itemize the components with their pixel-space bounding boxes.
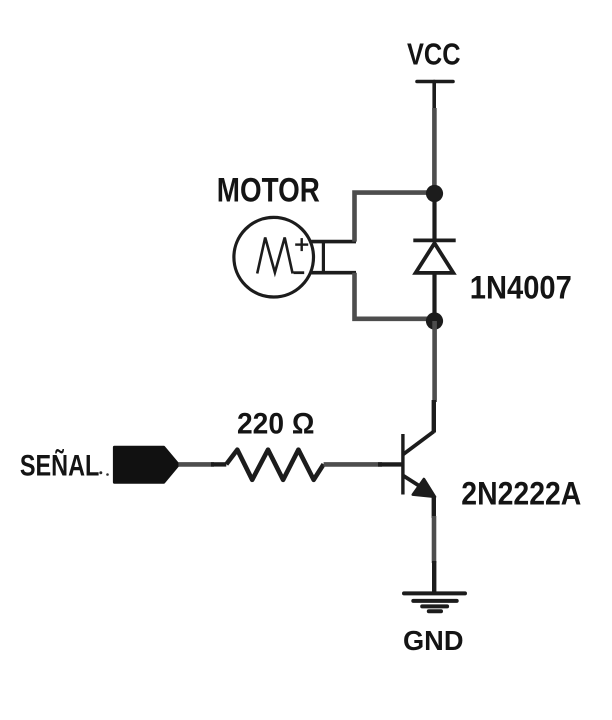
small speck bbox=[99, 471, 102, 474]
transistor Q1 emitter arrow bbox=[413, 479, 435, 497]
emitter lead bbox=[432, 496, 436, 518]
svg-text:SEÑAL: SEÑAL bbox=[20, 449, 100, 483]
svg-text:MOTOR: MOTOR bbox=[217, 172, 320, 210]
wire resistor to base bbox=[324, 462, 382, 467]
collector lead bbox=[432, 400, 436, 433]
svg-text:2N2222A: 2N2222A bbox=[461, 475, 581, 511]
signal input tag bbox=[114, 447, 178, 482]
wire node B to collector bbox=[432, 321, 437, 402]
svg-text:220 Ω: 220 Ω bbox=[237, 407, 315, 440]
ground symbol bbox=[404, 593, 465, 611]
motor M1 bbox=[234, 217, 314, 297]
ground lead bbox=[432, 561, 436, 592]
period speck after SEÑAL bbox=[106, 473, 109, 476]
transistor Q1 bbox=[403, 432, 434, 495]
motor terminal bar bbox=[322, 240, 325, 274]
motor lead top bbox=[311, 240, 356, 244]
diode D1 lead bottom bbox=[432, 273, 436, 315]
power symbol VCC bbox=[417, 82, 453, 111]
diode D1 lead top bbox=[432, 194, 436, 240]
wire VCC to node A bbox=[432, 108, 437, 193]
resistor R1 bbox=[226, 450, 323, 480]
base lead bbox=[378, 462, 402, 466]
wire emitter to ground bbox=[432, 516, 437, 563]
resistor R1 lead left bbox=[211, 462, 226, 466]
node A junction dot bbox=[426, 185, 443, 202]
wire motor top to node A bbox=[355, 193, 435, 242]
svg-text:GND: GND bbox=[403, 625, 464, 656]
svg-text:1N4007: 1N4007 bbox=[470, 269, 572, 305]
motor lead bottom bbox=[311, 271, 356, 275]
svg-text:VCC: VCC bbox=[407, 37, 461, 71]
wire tag to resistor bbox=[178, 462, 214, 467]
wire motor bottom to node B bbox=[355, 273, 435, 319]
node B junction dot bbox=[426, 312, 443, 329]
diode D1 bbox=[413, 240, 455, 273]
